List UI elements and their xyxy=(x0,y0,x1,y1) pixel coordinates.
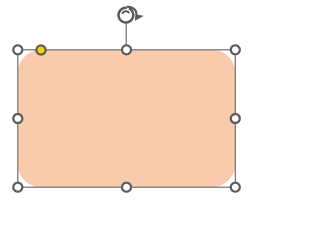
rotation handle stem xyxy=(125,23,127,50)
selection handle bottom-right xyxy=(231,183,240,192)
selection handle top-right xyxy=(231,45,240,54)
selection handle top-middle xyxy=(122,45,131,54)
rotation icon arrowhead triangle xyxy=(135,14,144,21)
rotation icon outer arc xyxy=(119,8,134,23)
selection handle top-left xyxy=(13,45,22,54)
selection handle bottom-middle xyxy=(122,183,131,192)
selection handle bottom-left xyxy=(13,183,22,192)
selection bounding box xyxy=(18,50,236,187)
rotation icon inner hook arc xyxy=(122,11,129,14)
yellow adjust handle xyxy=(36,45,45,54)
selection handle middle-right xyxy=(231,114,240,123)
selection handle middle-left xyxy=(13,114,22,123)
rounded rectangle shape xyxy=(18,50,236,187)
rotation icon arrow shaft xyxy=(127,7,136,15)
